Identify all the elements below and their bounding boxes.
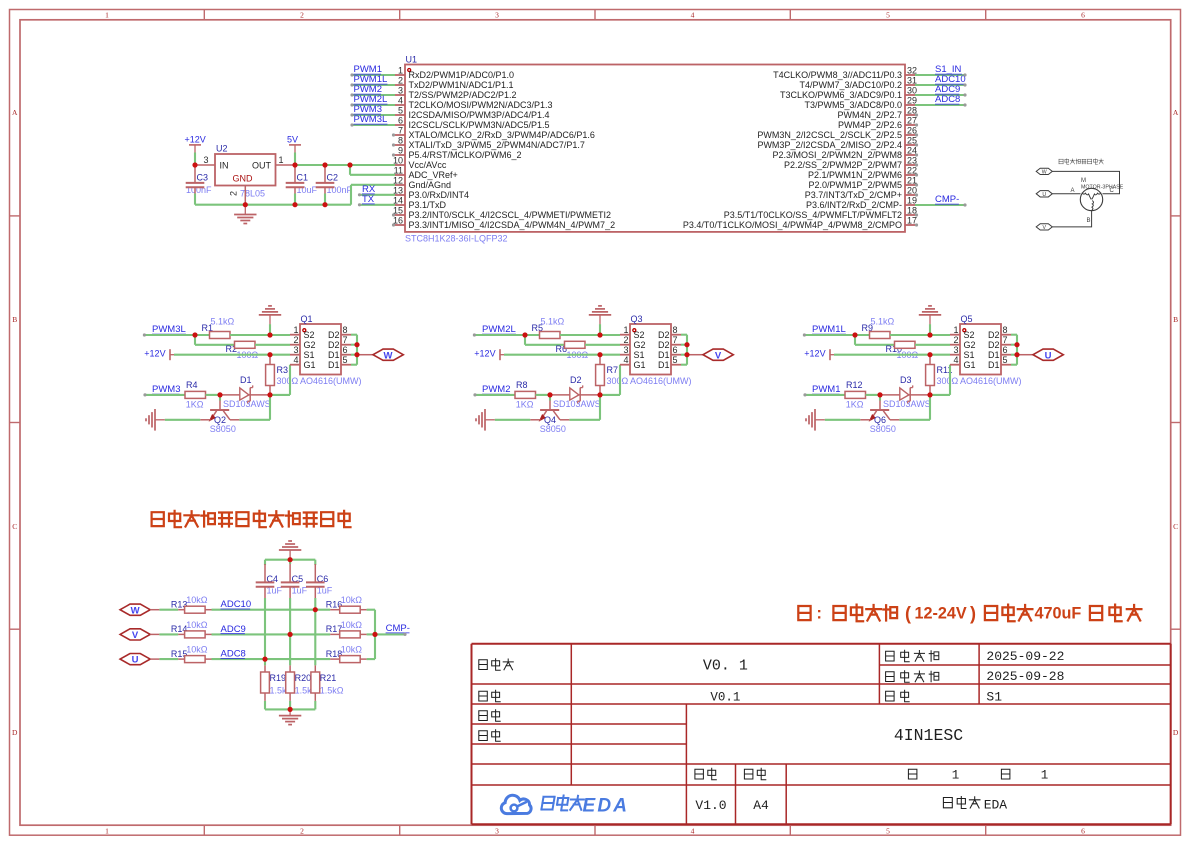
svg-text:Gnd/AGnd: Gnd/AGnd [409, 180, 452, 190]
svg-text:ADC_VRef+: ADC_VRef+ [409, 170, 458, 180]
svg-text:XTALI/TxD_3/PWM5_2/PWM4N/ADC7/: XTALI/TxD_3/PWM5_2/PWM4N/ADC7/P1.7 [409, 140, 585, 150]
svg-text:1: 1 [293, 325, 298, 335]
svg-text:1: 1 [953, 325, 958, 335]
net label ADC10 [221, 599, 252, 610]
node junction [927, 392, 932, 397]
svg-text:PWM3: PWM3 [152, 384, 181, 395]
svg-text:G2: G2 [964, 340, 976, 350]
svg-text:2: 2 [398, 76, 403, 86]
svg-text:4: 4 [623, 355, 628, 365]
svg-text:1: 1 [105, 10, 109, 19]
svg-text:T3/PWM5_3/ADC8/P0.0: T3/PWM5_3/ADC8/P0.0 [804, 100, 902, 110]
svg-text:470uF: 470uF [1035, 604, 1082, 622]
node junction [354, 352, 359, 357]
frame zone numbers top [105, 10, 1085, 19]
wire Q5 drains to port U [1011, 335, 1017, 365]
power flag +12V (regulator input) [185, 134, 206, 152]
svg-text:R19: R19 [270, 673, 287, 683]
IC U1 STC8H1K28-36I-LQFP32 [393, 54, 917, 243]
svg-text:PWM2L: PWM2L [482, 324, 516, 335]
net label ADC9 [221, 624, 246, 635]
svg-text:P3.2/INT0/SCLK_4/I2CSCL_4/PWME: P3.2/INT0/SCLK_4/I2CSCL_4/PWMETI/PWMETI2 [409, 210, 612, 220]
resistor R5 [532, 317, 565, 339]
port V (phase sense input) [120, 629, 159, 641]
wire open end [915, 173, 918, 176]
node junction [597, 332, 602, 337]
node junction [927, 352, 932, 357]
wire Q1 drains to port W [351, 335, 357, 365]
wire +12V rail to U2 IN [195, 153, 215, 166]
svg-text:2: 2 [300, 10, 304, 19]
svg-text:P3.1/TxD: P3.1/TxD [409, 200, 447, 210]
svg-text:3: 3 [495, 826, 499, 835]
diode D1 [220, 375, 271, 409]
wire port U to R15 [159, 658, 178, 660]
svg-text:PWM3L: PWM3L [354, 114, 388, 125]
node junction [313, 607, 318, 612]
ground (gate pull) [259, 306, 281, 335]
wire net PWM3 to R4 [145, 394, 185, 396]
wire bottom rail [265, 708, 315, 710]
wire +12V to Q5 pin 3 [834, 354, 950, 356]
wire open end [963, 103, 966, 106]
power flag +12V [474, 348, 504, 360]
wire R12 to diode D3 [866, 394, 881, 396]
svg-text:I2CSCL/SCLK/PWM3N/ADC5/P1.5: I2CSCL/SCLK/PWM3N/ADC5/P1.5 [409, 120, 550, 130]
wire net PWM2L to U1 pin 4 [352, 104, 395, 106]
svg-text:P3.4/T0/T1CLKO/MOSI_4/PWM4P_4/: P3.4/T0/T1CLKO/MOSI_4/PWM4P_4/PWM8_2/CMP… [683, 220, 902, 230]
node junction [522, 332, 527, 337]
svg-text:4IN1ESC: 4IN1ESC [894, 726, 963, 745]
svg-text:1.5kΩ: 1.5kΩ [320, 685, 344, 695]
svg-text:CMP-: CMP- [935, 194, 959, 205]
wire open end [915, 143, 918, 146]
svg-text:2025-09-22: 2025-09-22 [986, 649, 1064, 664]
svg-text:SD103AWS: SD103AWS [553, 399, 601, 409]
wire open end [392, 213, 395, 216]
wire open end [915, 133, 918, 136]
ground (Q6 emitter) [806, 409, 860, 431]
svg-text:U2: U2 [216, 144, 228, 154]
svg-text:7: 7 [343, 335, 348, 345]
transistor Q4 [530, 395, 569, 434]
resistor R6 [556, 341, 589, 360]
svg-text:D: D [1173, 728, 1179, 737]
wire R1 to Q1 pin 1 [230, 334, 290, 336]
wire open end [915, 123, 918, 126]
capacitor C5 [281, 564, 308, 598]
node junction [684, 342, 689, 347]
wire R18 to CMP- bus [367, 658, 375, 660]
note: battery input needs 470uF cap (CJK + latin) [798, 604, 1141, 624]
port U (motor) [1036, 191, 1052, 198]
wire open end [473, 333, 476, 336]
svg-text:PWM1L: PWM1L [812, 324, 846, 335]
svg-text:D1: D1 [240, 375, 252, 385]
svg-text:10kΩ: 10kΩ [186, 645, 208, 655]
port U (phase output) [1017, 349, 1063, 361]
node junction [597, 352, 602, 357]
node junction [288, 557, 293, 562]
net label PWM2 [482, 384, 511, 395]
title block company (CJK+EDA) [943, 797, 1007, 813]
power flag +12V [804, 348, 834, 360]
resistor R7 [596, 355, 629, 395]
node junction [1014, 352, 1019, 357]
resistor R14 [171, 620, 212, 638]
wire cap columns down [265, 598, 315, 665]
svg-text:AO4616(UMW): AO4616(UMW) [300, 376, 362, 386]
resistor R15 [171, 645, 212, 663]
svg-text:A: A [1173, 108, 1179, 117]
wire net ADC10 from U1 pin 31 [915, 84, 965, 86]
svg-text:D1: D1 [658, 350, 670, 360]
svg-text:1KΩ: 1KΩ [186, 400, 204, 410]
svg-text:1: 1 [623, 325, 628, 335]
wire open end [915, 113, 918, 116]
transistor Q1 [290, 314, 362, 386]
resistor R10 [886, 341, 919, 360]
wire net S1_IN from U1 pin 32 [915, 74, 965, 76]
wire R8 to diode D2 [536, 394, 551, 396]
svg-text:U: U [132, 655, 139, 666]
svg-text:V: V [715, 350, 722, 361]
svg-text:6: 6 [398, 116, 403, 126]
diode D2 [550, 375, 601, 409]
svg-text:G1: G1 [304, 360, 316, 370]
node junction [267, 352, 272, 357]
capacitor C2 [316, 165, 353, 195]
svg-text:1: 1 [952, 768, 960, 782]
wire open end [803, 333, 806, 336]
svg-text:P3.7/INT3/TxD_2/CMP+: P3.7/INT3/TxD_2/CMP+ [805, 190, 902, 200]
net label ADC8 [935, 94, 960, 105]
resistor R9 [862, 317, 895, 339]
node junction [684, 352, 689, 357]
svg-text:SD103AWS: SD103AWS [883, 399, 931, 409]
wire R17 to CMP- bus [367, 633, 375, 635]
svg-text:A4: A4 [753, 798, 769, 813]
svg-text:+12V: +12V [804, 348, 825, 358]
svg-text:D2: D2 [570, 375, 582, 385]
svg-text:B: B [1087, 218, 1091, 224]
svg-text:W: W [131, 605, 140, 616]
svg-text:6: 6 [343, 345, 348, 355]
net label ADC8 [221, 649, 246, 660]
wire open end [350, 113, 353, 116]
wire U2 OUT to 5V rail [276, 165, 396, 175]
wire open end [915, 183, 918, 186]
wire net PWM2 to U1 pin 3 [352, 94, 395, 96]
net label PWM3 [354, 104, 383, 115]
svg-text:TxD2/PWM1N/ADC1/P1.1: TxD2/PWM1N/ADC1/P1.1 [409, 80, 514, 90]
svg-text:ADC8: ADC8 [935, 94, 960, 105]
wire net PWM1 to U1 pin 1 [352, 74, 395, 76]
svg-text:+12V: +12V [144, 348, 165, 358]
svg-text:5: 5 [398, 106, 403, 116]
node junction [547, 392, 552, 397]
wire node to Q4 collector [569, 395, 600, 420]
svg-text:V0.1: V0.1 [710, 691, 740, 705]
svg-text:6: 6 [1003, 345, 1008, 355]
wire net PWM2 to R8 [475, 394, 515, 396]
svg-text:3: 3 [204, 155, 209, 165]
svg-text:G2: G2 [304, 340, 316, 350]
U1 unconnected pin ends left [0, 0, 1, 1]
svg-text:CMP-: CMP- [386, 623, 410, 634]
svg-text:3: 3 [293, 345, 298, 355]
wire motor V phase [1052, 211, 1091, 227]
svg-text:D1: D1 [328, 360, 340, 370]
svg-text:V: V [1042, 225, 1046, 231]
node junction [262, 657, 267, 662]
svg-text:SD103AWS: SD103AWS [223, 399, 271, 409]
svg-text:5.1kΩ: 5.1kΩ [211, 317, 235, 327]
wire net PWM2L to R5 and R6 [474, 335, 564, 345]
svg-text:RxD2/PWM1P/ADC0/P1.0: RxD2/PWM1P/ADC0/P1.0 [409, 70, 515, 80]
svg-text:78L05: 78L05 [240, 189, 265, 199]
wire net PWM3L to U1 pin 6 [352, 124, 395, 126]
svg-text:PWM3N_2/I2CSCL_2/SCLK_2/P2.5: PWM3N_2/I2CSCL_2/SCLK_2/P2.5 [757, 130, 902, 140]
svg-text:2: 2 [229, 191, 239, 196]
net label PWM2L [482, 324, 516, 335]
wire open end [392, 143, 395, 146]
net label PWM3 [152, 384, 181, 395]
node junction [217, 392, 222, 397]
wire net PWM3L to R1 and R2 [144, 335, 234, 345]
title block grid [472, 644, 1171, 824]
net label PWM1 [812, 384, 841, 395]
capacitor C6 [306, 564, 333, 598]
svg-text:V1.0: V1.0 [695, 798, 726, 813]
diode D3 [880, 375, 931, 409]
net label PWM2 [354, 84, 383, 95]
ground (gate pull) [589, 306, 611, 335]
svg-text:U: U [1042, 192, 1046, 198]
svg-text:C: C [12, 522, 17, 531]
svg-text:P2.2/SS_2/PWM2P_2/PWM7: P2.2/SS_2/PWM2P_2/PWM7 [784, 160, 902, 170]
svg-text:8: 8 [343, 325, 348, 335]
svg-text:3: 3 [623, 345, 628, 355]
svg-text:PWM4N_2/P2.7: PWM4N_2/P2.7 [837, 110, 902, 120]
resistor R1 [202, 317, 235, 339]
svg-text:S1: S1 [986, 690, 1002, 705]
svg-text:300Ω: 300Ω [607, 376, 629, 386]
svg-text:): ) [970, 604, 976, 624]
wire open end [392, 153, 395, 156]
wire ground bus under regulator [195, 185, 395, 205]
svg-text:S2: S2 [634, 330, 645, 340]
svg-text:10kΩ: 10kΩ [341, 595, 363, 605]
wire motor U phase [1052, 193, 1080, 195]
wire net ADC9 from U1 pin 30 [915, 94, 965, 96]
svg-text:AO4616(UMW): AO4616(UMW) [630, 376, 692, 386]
svg-text:P3.0/RxD/INT4: P3.0/RxD/INT4 [409, 190, 470, 200]
node junction [322, 202, 327, 207]
logo JLC EDA text [541, 796, 629, 817]
svg-text:D2: D2 [328, 330, 340, 340]
svg-text:4: 4 [398, 96, 403, 106]
svg-text:V0. 1: V0. 1 [703, 658, 748, 675]
net label ADC9 [935, 84, 960, 95]
svg-text:P3.6/INT2/RxD_2/CMP-: P3.6/INT2/RxD_2/CMP- [806, 200, 902, 210]
svg-text:5.1kΩ: 5.1kΩ [541, 317, 565, 327]
svg-text:D2: D2 [988, 330, 1000, 340]
svg-text:Vcc/AVcc: Vcc/AVcc [409, 160, 447, 170]
svg-text:5V: 5V [287, 135, 298, 145]
node junction [1014, 342, 1019, 347]
node junction [292, 162, 297, 167]
svg-text:B: B [12, 315, 17, 324]
svg-text:1: 1 [1041, 768, 1049, 782]
svg-text:S8050: S8050 [210, 424, 236, 434]
wire open end [350, 93, 353, 96]
wire net RX to U1 pin 13 [360, 194, 396, 196]
port W (phase sense input) [120, 604, 159, 616]
wire net PWM1L to R9 and R10 [804, 335, 894, 345]
svg-text:7: 7 [1003, 335, 1008, 345]
svg-text:ADC9: ADC9 [221, 624, 246, 635]
resistor R8 [515, 380, 536, 409]
U1 unconnected pin ends right [0, 0, 1, 1]
wire Q3 drains to port V [681, 335, 687, 365]
capacitor C4 [256, 564, 283, 598]
node junction [288, 707, 293, 712]
svg-text:AO4616(UMW): AO4616(UMW) [960, 376, 1022, 386]
wire R14 to columns (ADC9) [212, 633, 331, 635]
net label PWM3L [354, 114, 388, 125]
wire node to Q1 pin 4 [270, 365, 290, 395]
ground (gate pull) [919, 306, 941, 335]
svg-text:1KΩ: 1KΩ [846, 400, 864, 410]
port V (phase output) [687, 349, 733, 361]
svg-text:1KΩ: 1KΩ [516, 400, 534, 410]
node junction [267, 332, 272, 337]
wire open end [358, 193, 361, 196]
svg-text:R7: R7 [607, 365, 619, 375]
net label CMP- [935, 194, 959, 205]
wire open end [803, 393, 806, 396]
svg-text:300Ω: 300Ω [277, 376, 299, 386]
section title: comparator BEMF detect circuit (CJK) [152, 511, 351, 527]
transistor Q5 [950, 314, 1022, 386]
ground (cap bus top) [279, 541, 301, 560]
wire motor W phase [1052, 171, 1119, 193]
svg-text:5: 5 [886, 10, 890, 19]
node junction [243, 202, 248, 207]
wire net ADC8 from U1 pin 29 [915, 104, 965, 106]
svg-text:5.1kΩ: 5.1kΩ [871, 317, 895, 327]
svg-text:(: ( [905, 604, 911, 624]
svg-text:6: 6 [1081, 10, 1085, 19]
svg-text:C: C [1173, 522, 1178, 531]
svg-text:3: 3 [398, 86, 403, 96]
svg-text:U1: U1 [406, 54, 418, 64]
resistor R13 [171, 595, 212, 613]
svg-text:A: A [1071, 188, 1075, 194]
wire net CMP- from U1 pin 19 [915, 204, 965, 206]
transistor Q2 [200, 395, 239, 434]
net label RX [362, 184, 376, 195]
svg-text:9: 9 [398, 146, 403, 156]
wire R13 to columns (ADC10) [212, 609, 331, 611]
svg-text:8: 8 [1003, 325, 1008, 335]
resistor R4 [185, 380, 206, 409]
node junction [354, 342, 359, 347]
svg-text:10kΩ: 10kΩ [186, 595, 208, 605]
wire open end [915, 213, 918, 216]
node junction [927, 332, 932, 337]
svg-text:D1: D1 [658, 360, 670, 370]
svg-text:+12V: +12V [185, 134, 206, 144]
wire open end [350, 123, 353, 126]
wire open end [963, 73, 966, 76]
wire node to Q2 collector [239, 395, 270, 420]
svg-text:12-24V: 12-24V [915, 604, 967, 622]
svg-text:U: U [1045, 350, 1052, 361]
svg-text:GND: GND [233, 174, 254, 184]
wire open end [143, 393, 146, 396]
svg-text:S2: S2 [304, 330, 315, 340]
wire +12V to Q3 pin 3 [504, 354, 620, 356]
svg-text:R21: R21 [320, 673, 337, 683]
net label PWM1 [354, 64, 383, 75]
net label PWM3L [152, 324, 186, 335]
wire open end [143, 333, 146, 336]
resistor R17 [326, 620, 367, 638]
svg-text:W: W [1042, 169, 1047, 175]
svg-text:PWM4P_2/P2.6: PWM4P_2/P2.6 [838, 120, 902, 130]
svg-text:P2.3/MOSI_2/PWM2N_2/PWM8: P2.3/MOSI_2/PWM2N_2/PWM8 [772, 150, 902, 160]
svg-text:D2: D2 [658, 340, 670, 350]
svg-text:S2: S2 [964, 330, 975, 340]
port V (motor) [1036, 224, 1052, 231]
wire net PWM1 to R12 [805, 394, 845, 396]
svg-text:T3CLKO/PWM6_3/ADC9/P0.1: T3CLKO/PWM6_3/ADC9/P0.1 [780, 90, 902, 100]
net label TX [362, 194, 375, 205]
svg-text:S1: S1 [964, 350, 975, 360]
svg-text:P2.0/PWM1P_2/PWM5: P2.0/PWM1P_2/PWM5 [808, 180, 902, 190]
svg-text:1: 1 [398, 66, 403, 76]
power flag 5V [287, 135, 301, 166]
net label PWM1L [812, 324, 846, 335]
svg-text:4: 4 [953, 355, 958, 365]
resistor R19 [261, 665, 294, 709]
wire net TX to U1 pin 14 [360, 204, 396, 206]
svg-text:4: 4 [691, 826, 695, 835]
wire R4 to diode D1 [206, 394, 221, 396]
svg-text:S8050: S8050 [870, 424, 896, 434]
ground (regulator) [234, 205, 256, 224]
svg-text:R12: R12 [846, 380, 863, 390]
wire port W to R13 [159, 609, 178, 611]
svg-text:2: 2 [293, 335, 298, 345]
svg-text:6: 6 [1081, 826, 1085, 835]
svg-text:P3.3/INT1/MISO_4/I2CSDA_4/PWM4: P3.3/INT1/MISO_4/I2CSDA_4/PWM4N_4/PWM7_2 [409, 220, 616, 230]
svg-text:C3: C3 [197, 173, 209, 183]
svg-text:2: 2 [300, 826, 304, 835]
node junction [192, 162, 197, 167]
frame zone numbers bottom [105, 826, 1085, 835]
node D3 cathode / R11 / Q5 G1 / Q6 collector [0, 0, 1, 1]
svg-text:D1: D1 [988, 360, 1000, 370]
svg-text:P2.1/PWM1N_2/PWM6: P2.1/PWM1N_2/PWM6 [808, 170, 902, 180]
port W (motor) [1036, 168, 1052, 175]
svg-text:I2CSDA/MISO/PWM3P/ADC4/P1.4: I2CSDA/MISO/PWM3P/ADC4/P1.4 [409, 110, 550, 120]
transistor Q3 [620, 314, 692, 386]
svg-text:8: 8 [398, 136, 403, 146]
svg-text:D2: D2 [988, 340, 1000, 350]
